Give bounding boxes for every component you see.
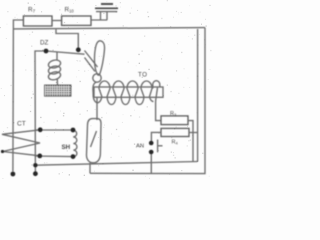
svg-text:CT: CT xyxy=(17,121,26,128)
svg-text:TO: TO xyxy=(138,72,147,79)
svg-text:R3: R3 xyxy=(170,111,177,117)
svg-text:SH: SH xyxy=(62,144,71,151)
svg-text:R4: R4 xyxy=(172,140,179,146)
svg-text:R10: R10 xyxy=(65,7,75,14)
svg-text:AN: AN xyxy=(136,144,144,150)
svg-text:R7: R7 xyxy=(28,7,36,14)
svg-text:DZ: DZ xyxy=(40,40,49,47)
